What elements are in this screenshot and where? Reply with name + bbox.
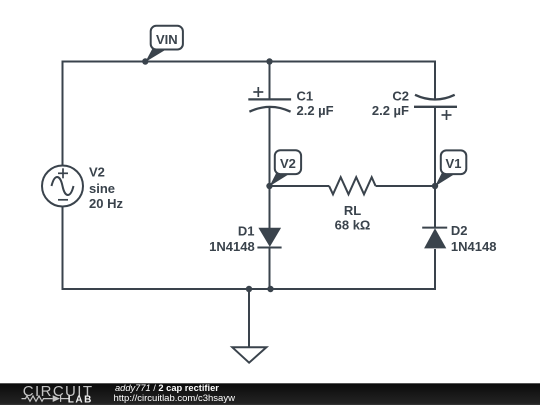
- node dot VIN: [142, 58, 148, 64]
- wire left rail bottom: [63, 207, 436, 290]
- svg-text:http://circuitlab.com/c3hsayw: http://circuitlab.com/c3hsayw: [114, 393, 236, 404]
- wire resistor right: [376, 185, 436, 187]
- wire D1 to bottom rail: [269, 248, 271, 290]
- wire top rail: [63, 62, 436, 166]
- node dot V2: [266, 183, 272, 189]
- diode D1: [257, 228, 281, 248]
- node label V1: [435, 150, 466, 186]
- svg-text:20 Hz: 20 Hz: [89, 196, 123, 211]
- svg-text:2.2 µF: 2.2 µF: [372, 103, 409, 118]
- node dot ground: [246, 286, 252, 292]
- svg-text:V2: V2: [280, 156, 296, 171]
- node label V2: [270, 150, 302, 186]
- capacitor C1: [248, 99, 291, 111]
- node label VIN: [145, 26, 183, 62]
- svg-text:1N4148: 1N4148: [451, 239, 497, 254]
- wire C1 to V2 node: [269, 106, 271, 186]
- resistor RL: [329, 177, 376, 194]
- wire V2 node to D1: [269, 186, 271, 228]
- logo diode: [53, 395, 60, 402]
- wire C2 to V1 node: [434, 107, 436, 186]
- svg-text:68 kΩ: 68 kΩ: [335, 218, 371, 233]
- capacitor C2: [414, 95, 457, 107]
- ground: [232, 289, 266, 363]
- wire C1 branch top: [269, 62, 271, 99]
- svg-text:V1: V1: [446, 156, 462, 171]
- C2 plus sign: [442, 110, 452, 120]
- V2 plus sign: [58, 168, 68, 200]
- wire resistor left: [270, 185, 330, 187]
- svg-text:1N4148: 1N4148: [209, 239, 255, 254]
- node dot D1 bottom: [267, 286, 273, 292]
- svg-text:sine: sine: [89, 181, 115, 196]
- svg-text:RL: RL: [344, 203, 361, 218]
- diode D2: [422, 228, 447, 249]
- svg-text:2.2 µF: 2.2 µF: [297, 103, 334, 118]
- svg-text:C1: C1: [297, 89, 314, 104]
- svg-text:C2: C2: [392, 89, 409, 104]
- node dot C1 top: [266, 58, 272, 64]
- node dot V1: [432, 183, 438, 189]
- wire V1 node to D2: [434, 186, 436, 229]
- svg-text:addy771 / 2 cap rectifier: addy771 / 2 cap rectifier: [115, 383, 219, 393]
- logo resistor zigzag: [22, 395, 69, 402]
- svg-text:LAB: LAB: [68, 395, 93, 405]
- svg-text:D2: D2: [451, 223, 468, 238]
- voltage source V2: [42, 166, 83, 207]
- svg-text:VIN: VIN: [156, 32, 178, 47]
- svg-text:D1: D1: [238, 224, 255, 239]
- C1 plus sign: [253, 87, 263, 97]
- svg-text:V2: V2: [89, 165, 105, 180]
- V2 minus sign: [58, 199, 68, 201]
